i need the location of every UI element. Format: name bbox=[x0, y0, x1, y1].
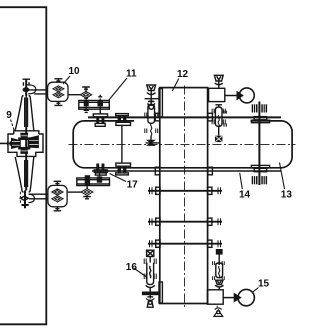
coupling 10 bottom stub bbox=[54, 101, 62, 106]
coupling 10b bottom stub bbox=[54, 207, 62, 211]
top shaft plate bbox=[254, 117, 267, 120]
rotor bottom swash loop bbox=[28, 194, 34, 202]
coupling below gearbox 11 bbox=[93, 114, 107, 126]
svg-text:14: 14 bbox=[239, 189, 251, 200]
engine gearbox bottom right bbox=[207, 290, 223, 304]
gearbox 17 input gear bbox=[85, 175, 90, 185]
lower cross shaft 2 bbox=[148, 218, 222, 225]
bottom flange x122 bbox=[116, 163, 131, 175]
svg-text:10: 10 bbox=[69, 66, 81, 77]
coupling 10 housing bbox=[48, 82, 68, 101]
bottom diamond bottom cap bbox=[83, 195, 91, 198]
gearbox 9 left shaft ticks bbox=[8, 141, 11, 145]
shaft rotor to coupling 10b bbox=[29, 194, 48, 199]
right accessory drive on cross shaft bbox=[212, 105, 225, 142]
coupling 10b top stub bbox=[54, 181, 62, 185]
gearbox 12 left flange plate bottom bbox=[159, 282, 162, 303]
coupling 10 upper diamond bbox=[53, 86, 64, 92]
funnel below engine gearbox bbox=[214, 306, 223, 317]
top flange coupling x122 bbox=[116, 114, 131, 126]
rotor top swash loop bbox=[27, 85, 36, 94]
shaft ticks right of gearbox 12 bbox=[224, 111, 226, 127]
top diamond stubs bbox=[82, 87, 90, 92]
shaft to bottom engine bbox=[223, 297, 236, 299]
coupling 10 top stub bbox=[54, 78, 62, 82]
top diamond coupling bbox=[80, 91, 91, 98]
label 9 bbox=[6, 110, 14, 131]
gearbox 9 housing band bbox=[8, 134, 43, 152]
gearbox 17 housing bbox=[77, 178, 110, 186]
gearbox 9 bottom flange bbox=[14, 152, 43, 156]
gearbox 9 right bevel gear bbox=[29, 136, 38, 148]
shaft coupling10b to diamond bbox=[67, 191, 81, 193]
gear coupling above wing (hatched) bbox=[252, 104, 267, 114]
rotor bottom dashed line bbox=[19, 192, 21, 205]
left lower accessory stack bbox=[143, 250, 158, 307]
rotor bottom hub bbox=[21, 196, 29, 200]
rotor upper cone bbox=[15, 96, 34, 131]
engine input gearbox top right bbox=[209, 88, 225, 101]
gearbox 11 output shaft bbox=[99, 106, 101, 114]
top engine arrow bbox=[237, 92, 242, 99]
coupling above gearbox 17 bbox=[94, 164, 107, 176]
rotor top hub bbox=[23, 88, 28, 91]
gear coupling below wing (hatched) bbox=[252, 175, 267, 185]
coupling 10 lower housing bbox=[48, 185, 67, 206]
shaft to top engine bbox=[225, 95, 240, 97]
gearbox 12 center line bbox=[184, 86, 186, 309]
gearbox 9 top flange bbox=[14, 131, 39, 134]
bottom wide flange plate bbox=[251, 165, 269, 168]
rotor top bearing ticks bbox=[23, 82, 29, 86]
bottom shaft plate bbox=[254, 168, 267, 171]
right engine shaft vertical bbox=[258, 102, 260, 186]
lower cross shaft 1 bbox=[148, 187, 222, 194]
label 13 bbox=[280, 163, 293, 201]
coupling 10b upper diamond bbox=[52, 189, 63, 195]
label 16 bbox=[126, 262, 146, 277]
gearbox 11 input gear bbox=[84, 100, 89, 107]
label 12 bbox=[172, 69, 188, 91]
svg-text:17: 17 bbox=[127, 179, 139, 190]
rotor shaft vertical bbox=[25, 79, 27, 191]
rotor bottom shaft end bbox=[22, 191, 29, 209]
gearbox 17 output gear bbox=[97, 176, 102, 182]
coupling 10b lower diamond bbox=[52, 196, 63, 202]
bottom interconnect shaft bbox=[92, 170, 281, 172]
gearbox 11 housing bbox=[79, 100, 110, 109]
top synchronizing shaft bbox=[88, 116, 281, 118]
box12 edge tabs at top shaft bbox=[155, 113, 212, 121]
accessory motor top-left of 12 bbox=[145, 85, 159, 109]
label 15 bbox=[252, 278, 269, 292]
main gearbox housing 12 bbox=[160, 88, 208, 304]
gearbox 9 left bevel gear bbox=[12, 138, 20, 148]
svg-text:13: 13 bbox=[281, 189, 293, 200]
svg-text:16: 16 bbox=[126, 262, 138, 273]
gearbox 17 output shaft bbox=[99, 173, 101, 177]
gearbox 11 output gear cap bbox=[98, 95, 102, 101]
bottom engine circle 15 bbox=[238, 289, 254, 305]
fuselage wall bbox=[0, 7, 46, 324]
top engine circle bbox=[239, 88, 254, 103]
funnel above engine gearbox bbox=[214, 75, 223, 88]
wing center line bbox=[69, 143, 296, 145]
label 10 bbox=[63, 66, 80, 84]
bottom engine arrow bbox=[234, 294, 240, 301]
lower cross shaft 3 bbox=[148, 240, 222, 247]
interconnect vertical shaft x122 bbox=[121, 125, 123, 163]
gearbox 9 lower bevel gear bbox=[21, 148, 28, 153]
gearbox 9 center bearing bbox=[20, 139, 30, 149]
wing gearbox housing 13 bbox=[73, 121, 292, 168]
bottom diamond shaft to gearbox 17 bbox=[86, 186, 88, 189]
gearbox 12 left flange plate top bbox=[159, 89, 162, 118]
rotor top end cap bbox=[23, 78, 31, 80]
gearbox 11 input gear caps bbox=[84, 98, 89, 112]
gearbox 9 upper bevel gear bbox=[21, 133, 28, 138]
svg-text:12: 12 bbox=[177, 69, 189, 80]
shaft coupling 10 to diamond bbox=[68, 94, 80, 96]
svg-text:15: 15 bbox=[258, 278, 270, 289]
coupling 10 lower diamond bbox=[53, 92, 64, 98]
svg-text:11: 11 bbox=[126, 68, 137, 79]
gearbox 11 output gear bbox=[97, 101, 103, 107]
bottom diamond coupling bbox=[81, 189, 93, 196]
shaft rotor hub to coupling 10 bbox=[29, 90, 48, 94]
top wide flange plate bbox=[251, 120, 269, 123]
label 11 bbox=[109, 68, 138, 100]
label 14 bbox=[239, 173, 251, 201]
gearbox 9 left output shaft bbox=[0, 142, 20, 144]
label 17 bbox=[110, 174, 139, 191]
left accessory drive on cross shaft bbox=[145, 102, 160, 146]
svg-text:9: 9 bbox=[6, 110, 12, 121]
rotor lower cone bbox=[15, 157, 34, 192]
right lower accessory stack bbox=[213, 250, 225, 290]
box12 edge tabs at bottom shaft bbox=[155, 167, 212, 175]
